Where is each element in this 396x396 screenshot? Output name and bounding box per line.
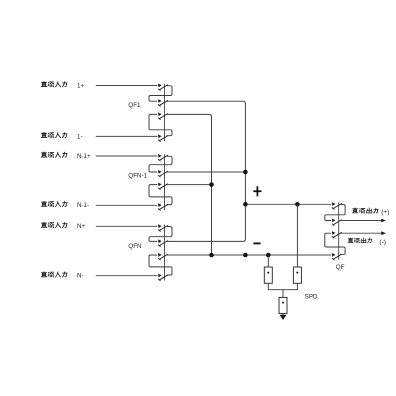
node junction (211.5,255.0) (209, 253, 214, 258)
QFN pole4 blade (160, 275, 168, 280)
QF pole2 contact arrow (332, 219, 336, 223)
label DC output (+) (352, 208, 378, 213)
QFN pole3 blade end tick (158, 258, 161, 260)
QFN-1 pole3 blade end tick (158, 188, 161, 190)
QF1 pole3 blade end tick (158, 118, 161, 120)
svg-text:(-): (-) (379, 239, 386, 246)
QF pole4 contact arrow (332, 253, 336, 257)
QF1 pole1 blade (160, 85, 168, 90)
wire: SPD common link (268, 283, 297, 289)
QF1 pole4 contact arrow (158, 134, 162, 138)
label minus polarity (253, 242, 260, 244)
QFN pole2 blade end tick (158, 245, 161, 247)
wire: positive bus tap to output breaker QF pole1 (245, 203, 331, 205)
wire: QF pole4 to pole3 series loop (325, 233, 345, 254)
wire: negative bus tap down to SPD element 1 (267, 255, 269, 267)
QF pole1 blade end tick (332, 208, 335, 210)
wire: QFN pole4 to pole3 series loop (149, 255, 172, 275)
QF pole4 blade (333, 254, 341, 259)
svg-text:N+: N+ (77, 223, 85, 230)
wire: DC output line (-) (341, 232, 382, 234)
QF pole3 contact arrow (332, 231, 336, 235)
svg-text:N-: N- (77, 273, 84, 280)
label DC input (zhiliu ruli) for N- (41, 272, 67, 277)
node junction (211.5,184.6) (209, 182, 214, 187)
node junction (245.4,172.0) (243, 170, 248, 175)
circuit breaker QFN-1 mechanical linkage (164, 154, 166, 210)
QFN pole1 blade (160, 225, 168, 230)
QF1 pole4 blade end tick (158, 140, 161, 142)
QF1 pole4 blade (160, 136, 168, 141)
QFN pole2 contact arrow (158, 239, 162, 243)
arrowhead output (-) (381, 231, 386, 235)
QFN-1 pole2 blade end tick (158, 175, 161, 177)
SPD element 1 (on negative) (264, 267, 272, 283)
QFN-1 pole4 blade end tick (158, 209, 161, 211)
node junction (245.4,204.3) (243, 202, 248, 207)
wire: positive collection bus (QF1 pole2 output, vertical riser x=245.4, QFN pole2 output) (167, 101, 245, 241)
svg-text:QF1: QF1 (128, 102, 141, 109)
label DC output (-) (348, 238, 372, 243)
QF pole2 blade (333, 220, 341, 225)
node junction (268.3,255.0) (266, 253, 271, 258)
QF pole4 blade end tick (332, 258, 335, 260)
svg-text:QFN: QFN (128, 243, 142, 250)
wire: input line 1+ (96, 85, 158, 87)
wire: QFN-1 pole2 output to positive riser (167, 171, 245, 173)
QF1 pole1 contact arrow (158, 84, 162, 88)
QFN-1 pole1 blade (160, 155, 168, 160)
wire: input line N-1+ (96, 155, 158, 157)
wire: QFN-1 pole4 to pole3 series loop (149, 185, 172, 205)
svg-text:(+): (+) (381, 209, 389, 216)
wire: QFN-1 pole1 to pole2 series loop (149, 156, 172, 172)
circuit breaker QFN mechanical linkage (164, 225, 166, 281)
QFN pole4 contact arrow (158, 274, 162, 278)
svg-text:QF: QF (336, 264, 345, 271)
circuit breaker QF1 mechanical linkage (164, 84, 166, 142)
QFN-1 pole2 blade (160, 171, 168, 176)
label DC input (zhiliu ruli) for 1- (41, 132, 67, 137)
label DC input (zhiliu ruli) for 1+ (41, 81, 67, 86)
svg-text:N-1+: N-1+ (77, 153, 91, 160)
wire: positive bus tap down to SPD element 2 (296, 204, 298, 267)
wire: input line 1- (96, 135, 158, 137)
wire: QF pole1 to pole2 series loop (325, 205, 345, 221)
wire: input line N- (96, 275, 158, 277)
QFN pole3 blade (160, 254, 168, 259)
node junction (245.4,255.0) (243, 253, 248, 258)
wire: negative riser (QF1 pole3 output down to negative bus) (167, 114, 212, 255)
circuit breaker QF mechanical linkage (338, 203, 340, 260)
QF pole3 blade (333, 232, 341, 237)
QF pole1 contact arrow (332, 202, 336, 206)
svg-text:N-1-: N-1- (77, 202, 89, 209)
label DC input (zhiliu ruli) for N+ (41, 222, 67, 227)
QFN-1 pole1 blade end tick (158, 159, 161, 161)
QFN-1 pole4 blade (160, 204, 168, 209)
wire: negative bus (QFN pole3 output to QF pole4) (167, 254, 331, 256)
wire: common down to SPD element 3 (282, 290, 284, 298)
QFN pole4 blade end tick (158, 279, 161, 281)
QF pole1 blade (333, 203, 341, 208)
wire: QF1 pole1 to pole2 series loop (149, 86, 172, 101)
arrowhead output (+) (381, 219, 386, 223)
QFN-1 pole4 contact arrow (158, 203, 162, 207)
ground (earth arrow) (280, 315, 287, 320)
label plus polarity (253, 186, 261, 196)
QFN-1 pole2 contact arrow (158, 170, 162, 174)
svg-text:1+: 1+ (77, 82, 84, 89)
QF pole2 blade end tick (332, 224, 335, 226)
svg-text:SPD: SPD (305, 294, 318, 301)
QF1 pole2 contact arrow (158, 99, 162, 103)
svg-text:QFN-1: QFN-1 (128, 173, 147, 180)
QFN-1 pole3 blade (160, 184, 168, 189)
wire: DC output line (+) (341, 220, 382, 222)
svg-text:1-: 1- (77, 133, 83, 140)
QFN pole1 blade end tick (158, 230, 161, 232)
QFN pole3 contact arrow (158, 253, 162, 257)
QF pole3 blade end tick (332, 236, 335, 238)
QFN pole2 blade (160, 241, 168, 246)
wire: QF1 pole4 to pole3 series loop (149, 114, 172, 135)
QF1 pole2 blade (160, 100, 168, 105)
QF1 pole3 contact arrow (158, 112, 162, 116)
label DC input (zhiliu ruli) for N-1- (41, 201, 67, 206)
SPD element 3 (to earth) (279, 297, 287, 313)
QFN-1 pole1 contact arrow (158, 154, 162, 158)
label DC input (zhiliu ruli) for N-1+ (41, 152, 67, 157)
QF1 pole2 blade end tick (158, 104, 161, 106)
QF1 pole1 blade end tick (158, 89, 161, 91)
wire: QFN pole1 to pole2 series loop (149, 227, 172, 242)
wire: input line N-1- (96, 204, 158, 206)
wire: QFN-1 pole3 output to negative riser (167, 184, 212, 186)
wire: input line N+ (96, 225, 158, 227)
SPD element 2 (on positive) (293, 267, 301, 283)
wire: SPD element 3 to earth (282, 313, 284, 315)
QFN-1 pole3 contact arrow (158, 183, 162, 187)
node junction (297.4,204.3) (295, 202, 300, 207)
QFN pole1 contact arrow (158, 224, 162, 228)
QF1 pole3 blade (160, 114, 168, 119)
